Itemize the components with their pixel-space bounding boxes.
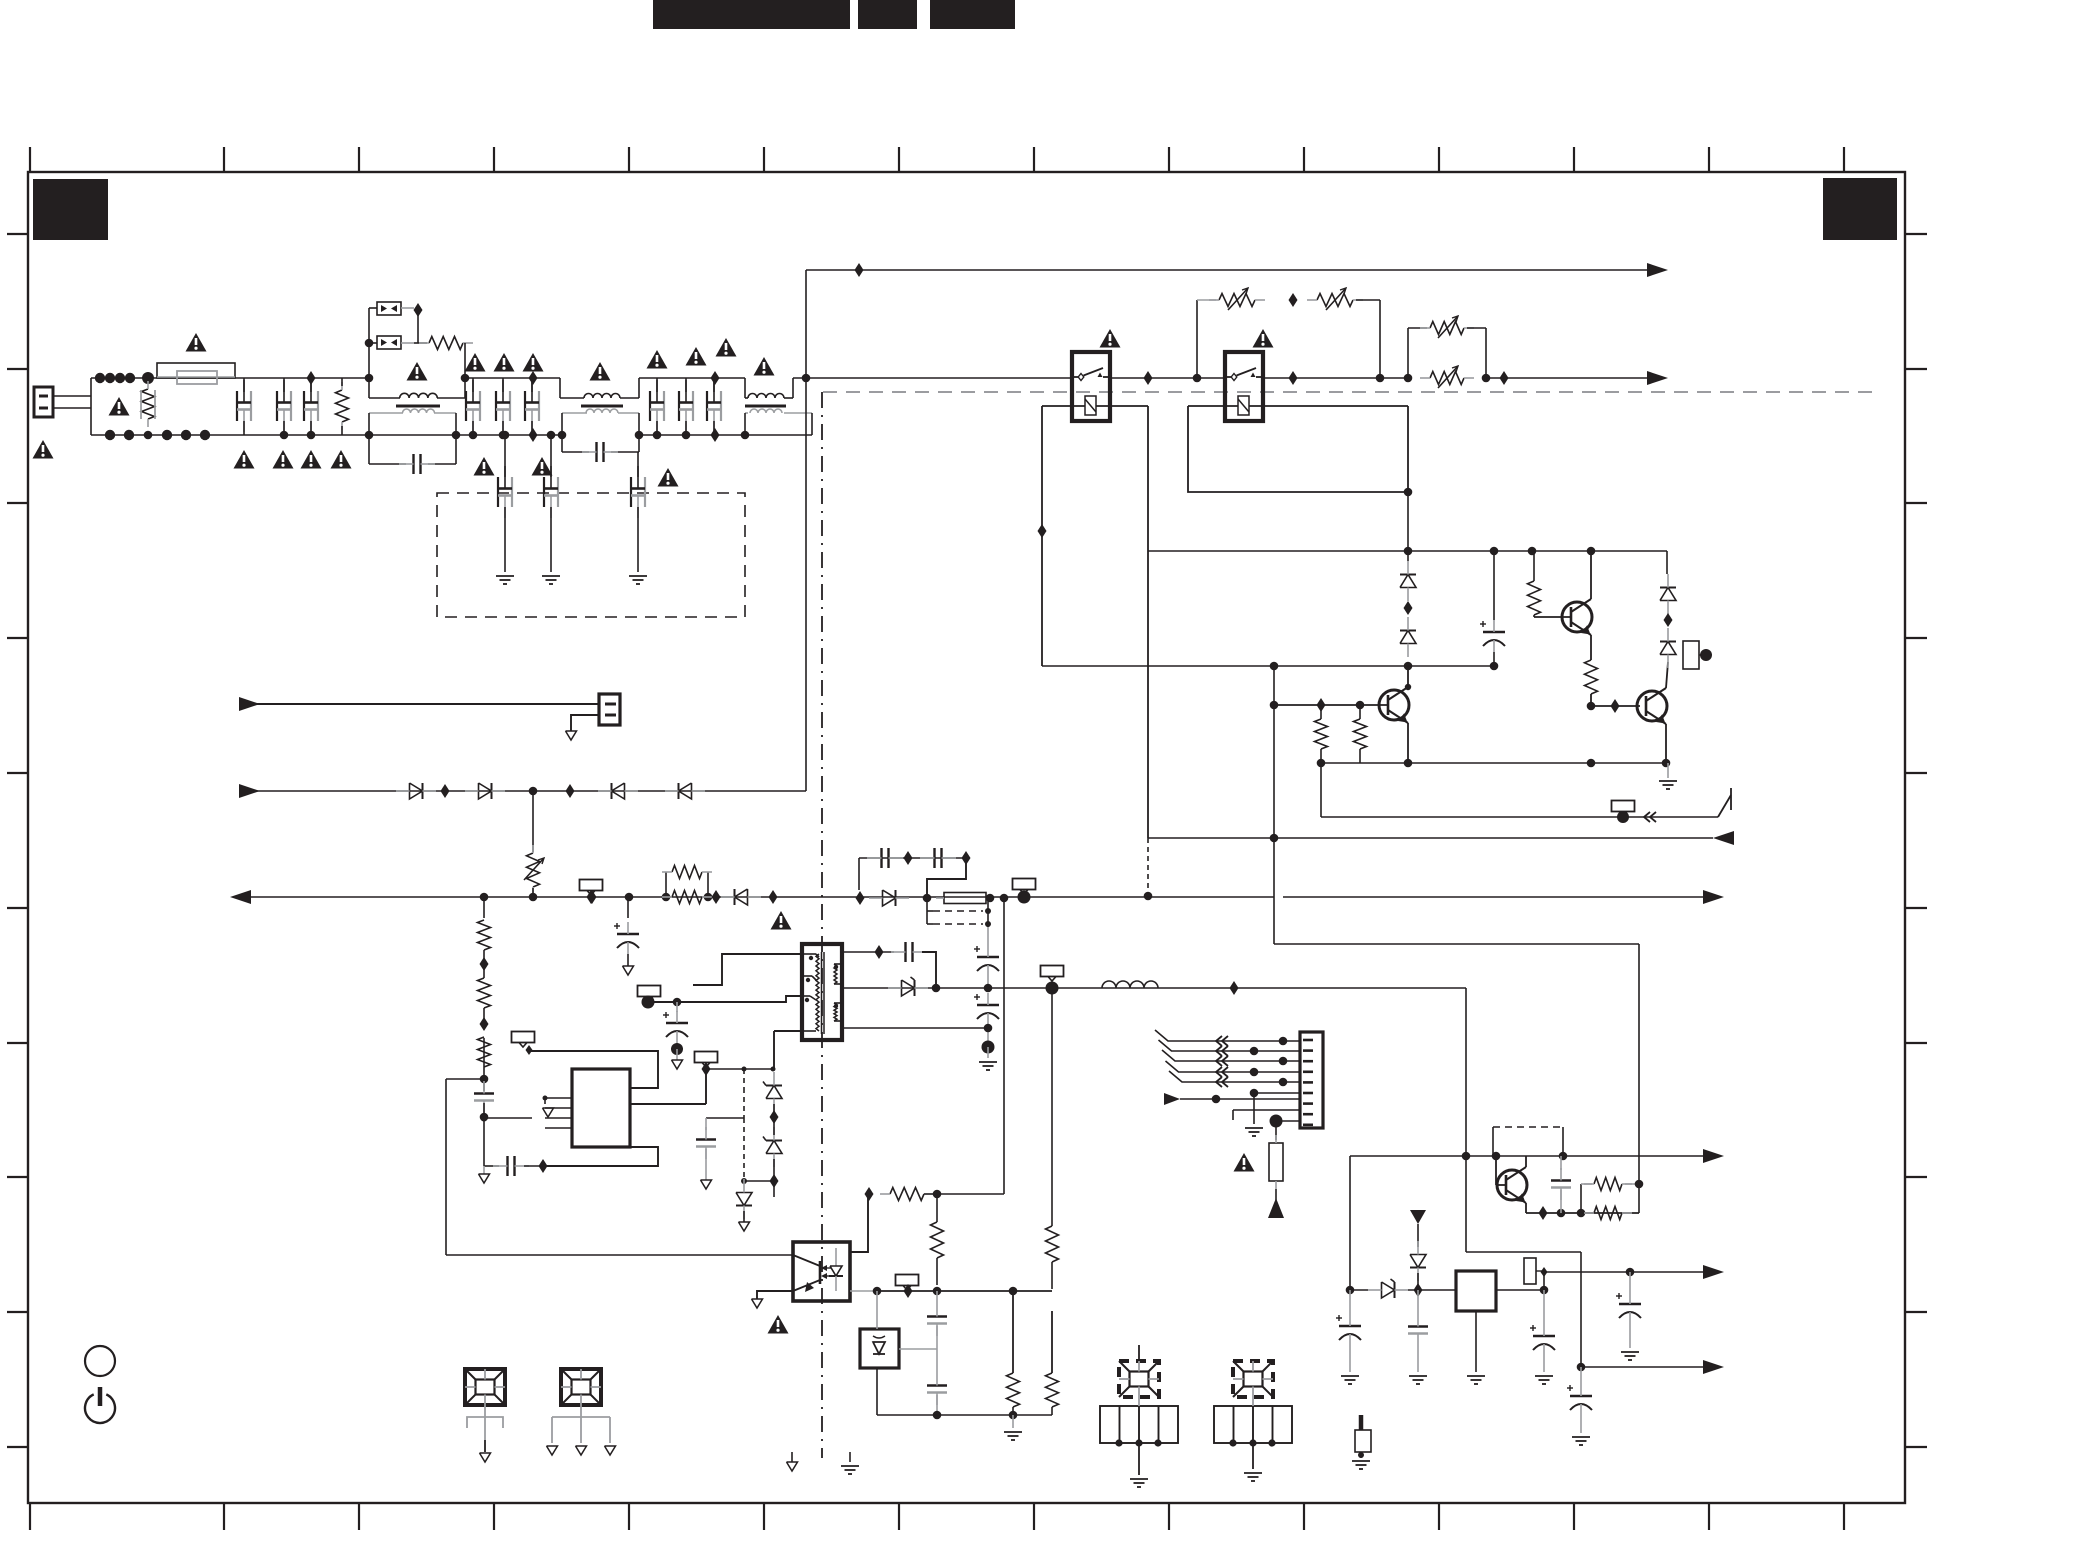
wire primary top <box>648 996 802 1002</box>
arrow B+ feed left <box>230 890 251 904</box>
wire snubber down <box>1638 944 1640 1184</box>
wire Q4 emitter line <box>1526 1212 1639 1214</box>
arrow line C out <box>1703 1360 1724 1374</box>
cap bank x988 <box>987 927 989 945</box>
Y-capacitor CY2 <box>550 435 552 477</box>
wire sec main out <box>840 987 1466 989</box>
label flag drain <box>695 1052 718 1063</box>
capacitor C8 <box>595 442 597 462</box>
diode D reg <box>1382 1282 1395 1298</box>
dashed sub rect <box>933 910 983 912</box>
Y-capacitor CY3 <box>637 452 639 477</box>
common-mode choke L3 <box>744 378 746 398</box>
power LED icon <box>85 1346 115 1376</box>
TL431 U3 <box>860 1329 899 1368</box>
IC left pins <box>545 1097 572 1099</box>
wire vertical main <box>805 270 807 791</box>
diode D10 <box>883 890 896 906</box>
redacted sheet label top-left <box>33 179 108 240</box>
resistor R fb low2 <box>1046 1373 1059 1407</box>
resistor R driver1 <box>1528 581 1541 615</box>
wire B+ feed right part <box>1283 896 1710 898</box>
main transformer T1 <box>802 944 842 1040</box>
label tag reg out <box>1524 1258 1536 1284</box>
label flag standby <box>1612 801 1635 812</box>
wire bridge loop <box>368 308 370 378</box>
aux cap 677 <box>673 998 682 1007</box>
thermistor R on line <box>1430 372 1464 385</box>
wire snubber horiz <box>1274 943 1639 945</box>
warning triangles under caps <box>234 450 255 469</box>
warning triangle fuse <box>186 333 207 352</box>
transistor Q2 <box>1562 602 1592 632</box>
Y-capacitor C5 <box>465 391 467 421</box>
ferrite beads live <box>95 373 105 383</box>
warning triangle choke3 <box>754 357 775 376</box>
wire degauss gnd hook <box>571 715 599 731</box>
wire TL431 cathode <box>899 1348 937 1350</box>
wire snubber drop <box>1273 666 1275 944</box>
isolation dashed line horizontal <box>823 391 1873 393</box>
cap C reg mid <box>1417 1290 1419 1314</box>
warning triangle T1 <box>771 911 792 930</box>
ground fb <box>1012 1415 1014 1428</box>
X-capacitor C1 <box>236 391 238 421</box>
arrow B+ out <box>1647 263 1668 277</box>
wire rail segment <box>465 377 560 379</box>
diode D6 <box>479 783 492 799</box>
common-mode choke L2 <box>559 378 561 398</box>
resistor pair loop <box>665 872 667 897</box>
wire ctl tick <box>1718 795 1731 817</box>
capacitor C 706 <box>705 1118 707 1130</box>
diode D9 <box>735 889 748 905</box>
wire Q3 base <box>1591 705 1640 707</box>
NTC R <box>527 853 540 887</box>
chevrons standby <box>1644 812 1650 822</box>
redacted title text bar 2 <box>930 0 1015 29</box>
wire emitter Q3 down <box>1665 724 1667 763</box>
wire fb line y1255 <box>446 1078 484 1080</box>
wire to rail <box>464 343 466 378</box>
wire secondary return <box>840 1027 988 1029</box>
diode pack D1 <box>377 302 401 315</box>
voltage regulator U4 <box>1456 1271 1496 1311</box>
dashed box Q4 <box>1493 1126 1563 1128</box>
wire degauss <box>244 703 599 705</box>
wire RL1 coil left <box>1042 405 1085 407</box>
diode D5 <box>410 783 423 799</box>
junction diamond <box>414 303 423 317</box>
filled arrow node <box>1410 1210 1426 1224</box>
redacted sheet label top-right <box>1823 178 1897 240</box>
resistor R bleed <box>336 390 349 422</box>
label flag fb <box>896 1275 919 1286</box>
relay RL2 <box>1225 352 1263 421</box>
wire aux winding <box>693 954 802 985</box>
wire TL431 anode <box>876 1368 878 1415</box>
common-mode choke L1 <box>368 378 370 398</box>
label flag IC vcc <box>512 1032 535 1043</box>
capacitor C fb2 <box>927 1384 947 1386</box>
arrow drive line end <box>1713 831 1734 845</box>
power switch icon <box>85 1394 115 1423</box>
pin header CN4 <box>1214 1406 1292 1443</box>
X-capacitor C2 <box>276 391 278 421</box>
thermistor loop 1 <box>1196 300 1198 378</box>
warning triangle opto <box>768 1315 789 1334</box>
mains connector <box>34 387 53 417</box>
diode D relay 2 <box>1400 631 1416 644</box>
wire opto gnd <box>757 1291 793 1299</box>
fuse F2 <box>1269 1143 1283 1181</box>
wire rail to relay <box>793 377 1072 379</box>
wire RL1 coil right <box>1096 405 1148 407</box>
warning triangle choke2 <box>590 362 611 381</box>
diode D relay 1 <box>1400 575 1416 588</box>
capacitor C ic bottom <box>484 1165 499 1167</box>
resistor R sense <box>1046 1226 1059 1262</box>
ferrite beads neutral <box>105 430 115 440</box>
resistor pair reg <box>1580 1184 1582 1213</box>
warning triangles row A <box>465 353 486 372</box>
transistor Q4 <box>1497 1170 1527 1200</box>
resistor R base2 Q1 <box>1354 719 1367 749</box>
warning triangle input <box>109 397 130 416</box>
dashed wire to line3 <box>1147 838 1149 896</box>
label flag B+ node <box>1013 879 1036 890</box>
wire driver bottom line <box>1321 762 1668 764</box>
arrow AC out <box>1647 371 1668 385</box>
isolation dashed line vertical <box>821 392 823 1458</box>
wire neutral segment <box>456 434 562 436</box>
wire reg out <box>1496 1289 1544 1291</box>
snubber sec <box>840 951 894 953</box>
wire pin7 arrow <box>1180 1098 1300 1100</box>
warning triangles Y-caps <box>474 457 495 476</box>
capacitor C Q4 <box>1560 1156 1562 1170</box>
resistor R2 <box>429 337 463 350</box>
wire rail segment 2 <box>639 377 745 379</box>
arrow degauss in <box>239 697 260 711</box>
Y-capacitor C6 <box>495 391 497 421</box>
wire Q1 base <box>1274 704 1388 706</box>
snubber cap drop <box>627 897 629 918</box>
wire reg top line <box>1350 1155 1710 1157</box>
fuse link <box>944 893 986 904</box>
wire pin8 gnd <box>1233 1109 1300 1111</box>
capacitor C ic left <box>474 1092 494 1094</box>
dashed Y-cap box <box>437 493 745 617</box>
degauss connector <box>599 694 620 725</box>
diode chain Q3 <box>1666 551 1668 574</box>
redacted title text bar <box>653 0 850 29</box>
cap C reg out right <box>1629 1272 1631 1292</box>
pin header CN3 <box>1100 1406 1178 1443</box>
resistor R fb upper <box>931 1222 944 1258</box>
wire fb resistor line <box>865 1187 874 1201</box>
warning triangle RL2 <box>1253 329 1274 348</box>
wire y551 line <box>1148 550 1667 552</box>
relay RL1 <box>1072 352 1110 421</box>
wire fb mid line <box>877 1290 1052 1292</box>
warning triangle RL1 <box>1100 329 1121 348</box>
snubber step wire <box>927 858 966 898</box>
X-capacitor C3 <box>303 391 305 421</box>
ground harness <box>1253 1093 1255 1124</box>
transistor Q3 <box>1637 691 1667 721</box>
wire out down <box>1465 988 1467 1156</box>
resistor R base Q1 <box>1315 719 1328 749</box>
wire reg gnd pin <box>1475 1311 1477 1372</box>
connector P1 <box>465 1369 505 1405</box>
wire opto emitter <box>850 1290 877 1292</box>
Y-capacitor C9 <box>649 391 651 421</box>
fuse F1 <box>157 363 235 378</box>
wire TL431 ref <box>876 1291 878 1329</box>
label flag output <box>1041 966 1064 977</box>
cap C reg in <box>1349 1290 1351 1314</box>
connector CN3 <box>1119 1361 1159 1397</box>
warning triangles row B <box>647 350 668 369</box>
wire neutral rail <box>91 434 456 436</box>
wire pin9 fuse <box>1276 1120 1300 1122</box>
wire rail to arrow <box>1486 377 1654 379</box>
wire pin6 <box>1254 1092 1300 1094</box>
wire reg mid <box>1349 1156 1351 1290</box>
wire after RL2 <box>1263 377 1408 379</box>
output connector CN2 <box>1300 1032 1323 1128</box>
thermal sensor <box>1359 1415 1364 1430</box>
thermistor loop 2 <box>1407 328 1409 378</box>
diode pack D2 <box>377 336 401 349</box>
wire IC loop bottom <box>543 1147 658 1166</box>
connector CN4 <box>1233 1361 1273 1397</box>
label flag primary <box>638 986 661 997</box>
wire relay drive line <box>1148 837 1713 839</box>
filled arrow up <box>1275 1189 1277 1200</box>
Y-capacitor C7 <box>524 391 526 421</box>
varistor RV1 <box>142 389 155 419</box>
wire between relays <box>1110 377 1225 379</box>
wire 944 column join <box>1638 1184 1640 1213</box>
Y-capacitor CY1 <box>504 435 506 477</box>
arrow reg out B <box>1703 1265 1724 1279</box>
zener D reg2 <box>1410 1255 1426 1268</box>
ground driver <box>1667 763 1669 778</box>
redacted title text short bar <box>858 0 917 29</box>
polarized cap C driver <box>1493 551 1495 620</box>
harness wires with chevrons <box>1155 1030 1300 1041</box>
wire mains to rails <box>90 378 92 435</box>
inductor L out <box>1102 981 1158 988</box>
IC U1 SMPS controller <box>572 1069 630 1147</box>
wire standby ctl <box>1320 763 1322 817</box>
resistor R fb low1 <box>1007 1373 1020 1407</box>
zener pair right <box>743 1069 745 1088</box>
wire fb bottom line <box>877 1414 1052 1416</box>
diode D7 <box>612 783 625 799</box>
warning triangle frame gnd <box>33 440 54 459</box>
wire out corner down <box>1465 1156 1467 1252</box>
capacitor C fb1 <box>936 1291 938 1304</box>
cap C line C <box>1580 1367 1582 1384</box>
cap C reg out <box>1543 1290 1545 1324</box>
arrow reg out <box>1703 1149 1724 1163</box>
wire rectified line <box>244 790 806 792</box>
wire live rail <box>91 377 369 379</box>
wire hv to ic <box>1003 897 1005 1194</box>
ground isolation right <box>849 1452 851 1462</box>
diode D8 <box>679 783 692 799</box>
resistor chain x484 <box>480 893 489 902</box>
IC right pin drain <box>630 1103 706 1105</box>
label flag B+ feed <box>580 880 603 891</box>
Y-capacitor C10 <box>678 391 680 421</box>
transistor Q1 <box>1379 690 1409 720</box>
wire B+ feed line <box>244 896 1274 898</box>
connector P2 <box>561 1369 601 1405</box>
snubber row caps <box>859 857 966 859</box>
wire reg out line B <box>1544 1271 1710 1273</box>
optocoupler U2 <box>793 1242 850 1301</box>
label plate node <box>1683 641 1699 669</box>
wire primary bottom to zener column <box>774 1030 802 1032</box>
wire RL2 coil loop <box>1188 405 1238 407</box>
wire IC loop top <box>529 1051 658 1088</box>
arrow B+ feed right <box>1703 890 1724 904</box>
Y-capacitor C11 <box>706 391 708 421</box>
wire y666 line <box>1042 665 1408 667</box>
warning triangle F2 <box>1234 1153 1255 1172</box>
capacitor C4 <box>412 454 414 474</box>
wire line C out <box>1577 1363 1586 1372</box>
wire NTC drop <box>532 791 534 852</box>
zener D mid <box>743 1118 745 1181</box>
resistor R emitter Q2 <box>1585 660 1598 694</box>
wire opto collector <box>850 1194 868 1252</box>
wire neutral up to bridge <box>811 413 813 435</box>
zener D sec <box>902 980 915 996</box>
arrow rectified in <box>239 784 260 798</box>
wire RL2 coil right <box>1249 405 1408 407</box>
wire neutral segment 2 <box>639 434 745 436</box>
warning triangle choke1 <box>407 362 428 381</box>
resistor R on B+ line <box>672 891 702 904</box>
wire IC feedback left <box>484 1117 532 1119</box>
ground isolation left <box>791 1452 793 1462</box>
wire B+ top line <box>806 269 1654 271</box>
